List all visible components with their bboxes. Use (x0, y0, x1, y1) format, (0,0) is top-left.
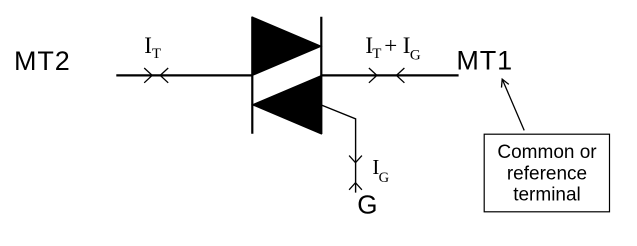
gate wire (321, 105, 355, 193)
svg-text:MT2: MT2 (14, 46, 71, 76)
triac left bar (MT2 electrode) (251, 17, 253, 134)
svg-text:+: + (384, 33, 397, 58)
wire MT1 terminal (321, 74, 458, 76)
current arrows on MT1 wire (369, 68, 405, 83)
label IT + IG (365, 33, 421, 63)
svg-text:I: I (144, 33, 152, 58)
svg-text:G: G (357, 189, 377, 219)
annotation text: Common or reference terminal (497, 142, 597, 206)
current arrows on MT2 wire (144, 68, 168, 83)
svg-text:MT1: MT1 (456, 45, 513, 75)
triac right bar (MT1 electrode) (320, 17, 322, 134)
svg-text:G: G (410, 48, 421, 64)
svg-text:Common or: Common or (497, 142, 597, 163)
label IT (144, 33, 161, 62)
svg-text:terminal: terminal (513, 185, 581, 206)
annotation arrow to MT1 (502, 79, 525, 130)
wire MT2 terminal (116, 74, 252, 76)
label IG (372, 155, 389, 186)
svg-text:reference: reference (507, 164, 587, 185)
svg-text:T: T (152, 46, 161, 62)
svg-text:G: G (379, 170, 390, 186)
annotation box (484, 134, 609, 212)
triac lower triangle (252, 76, 321, 135)
current arrows on gate wire (349, 156, 362, 190)
svg-text:T: T (372, 46, 381, 62)
triac upper triangle (252, 17, 321, 76)
